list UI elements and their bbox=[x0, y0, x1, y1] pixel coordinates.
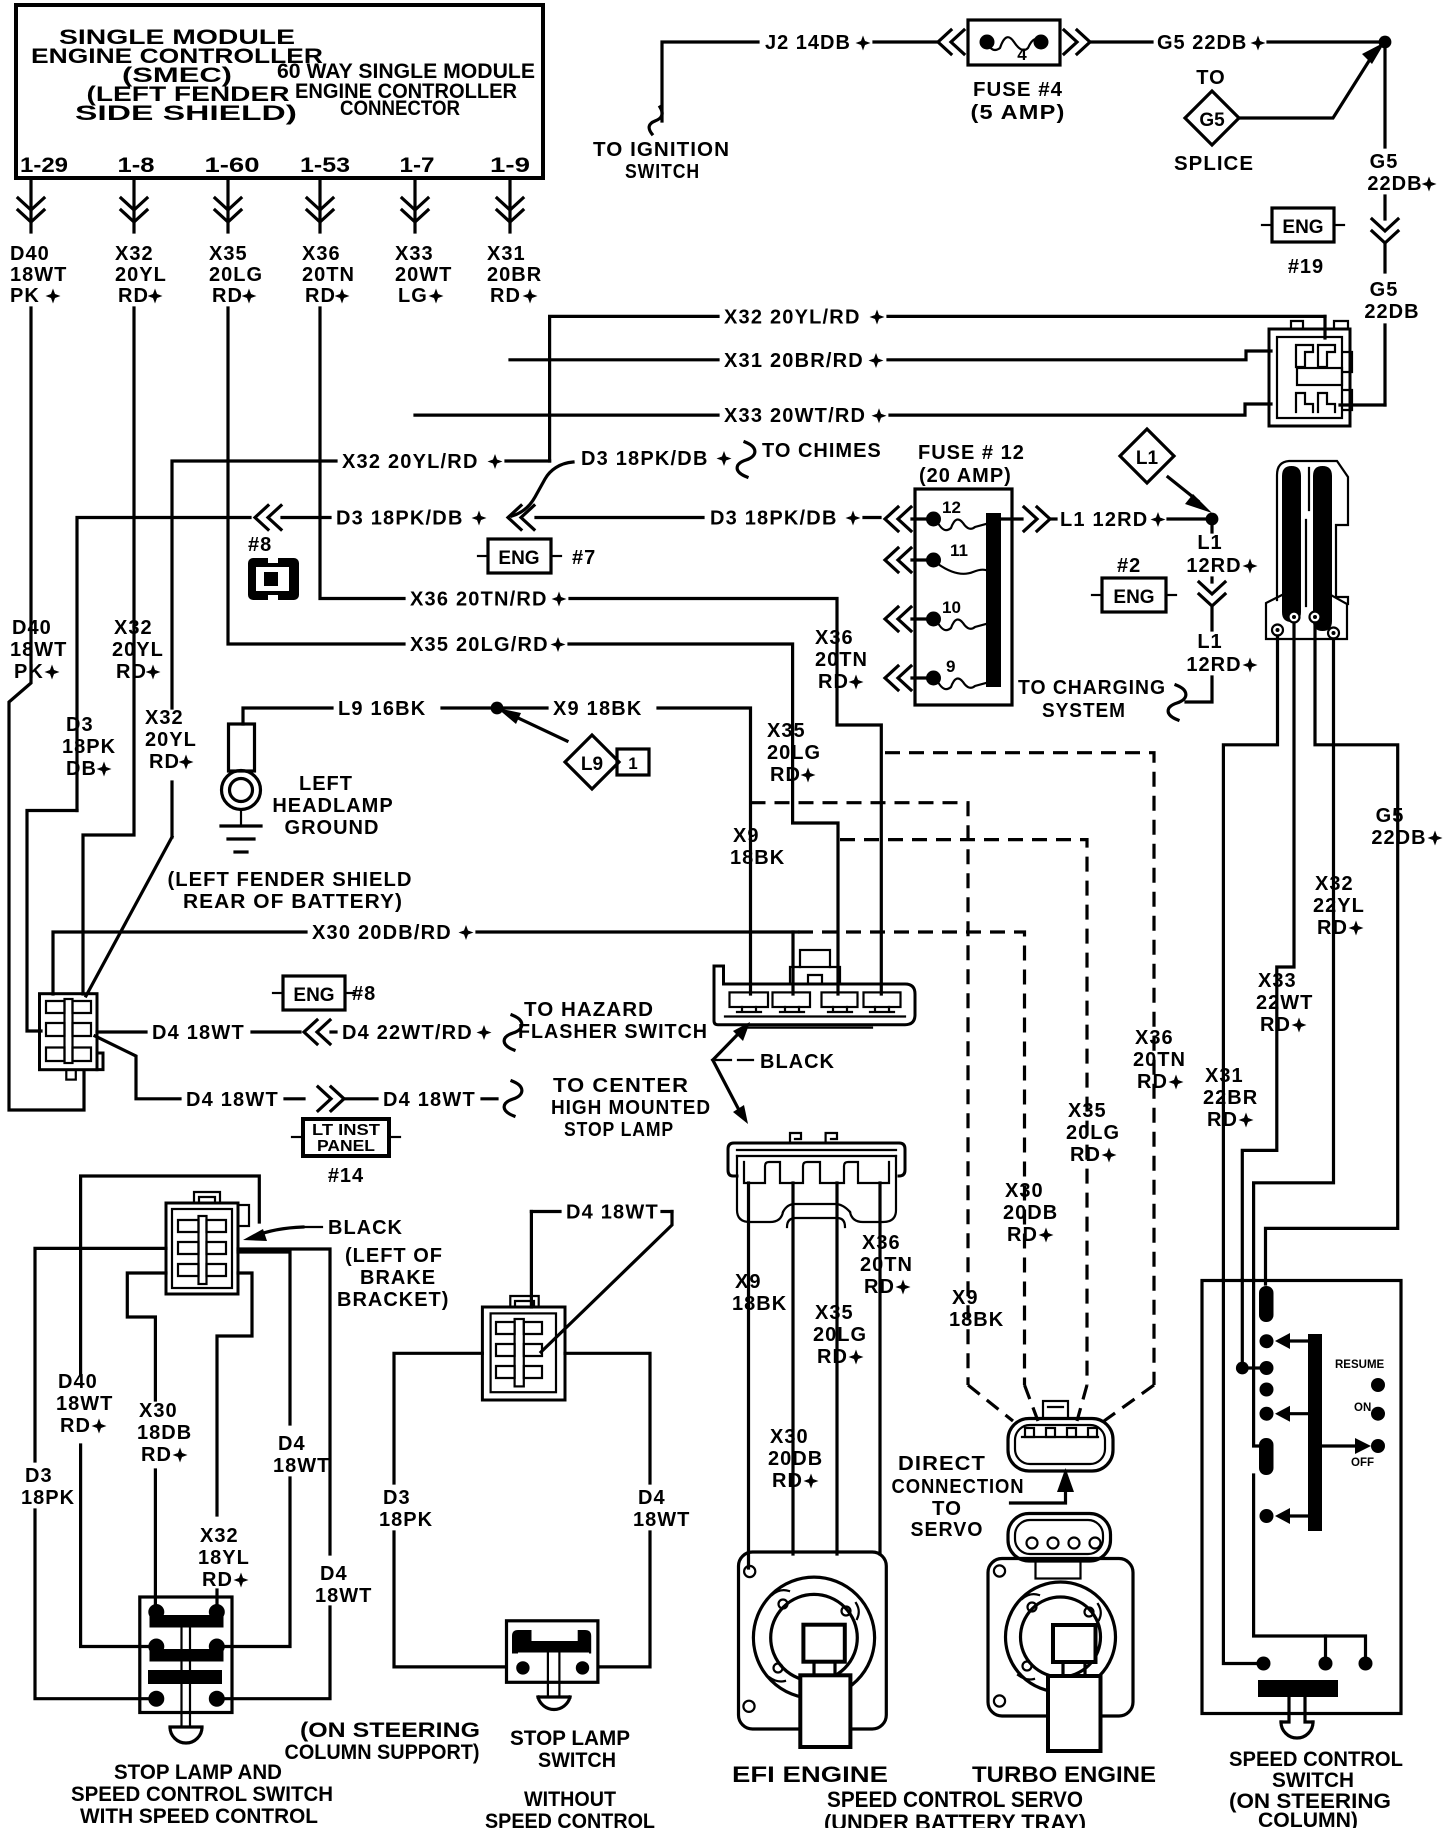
svg-text:G5: G5 bbox=[1370, 279, 1399, 301]
svg-text:PANEL: PANEL bbox=[317, 1138, 375, 1155]
svg-text:20TN: 20TN bbox=[860, 1254, 913, 1276]
svg-text:20TN: 20TN bbox=[815, 649, 868, 671]
svg-text:BLACK: BLACK bbox=[328, 1217, 403, 1239]
svg-text:D4 22WT/RD: D4 22WT/RD bbox=[342, 1022, 473, 1044]
svg-text:RD: RD bbox=[818, 671, 849, 693]
wire X36 20TN/RD bbox=[320, 308, 404, 599]
svg-text:RD: RD bbox=[118, 285, 149, 307]
svg-text:SPEED CONTROL: SPEED CONTROL bbox=[485, 1810, 655, 1828]
svg-text:20TN: 20TN bbox=[1133, 1049, 1186, 1071]
svg-text:20YL: 20YL bbox=[115, 264, 167, 286]
svg-text:22DB: 22DB bbox=[1371, 827, 1426, 849]
svg-text:20YL: 20YL bbox=[145, 729, 197, 751]
slider bar bbox=[1308, 1334, 1322, 1531]
svg-text:RD: RD bbox=[141, 1444, 172, 1466]
turbo servo actuator bbox=[1053, 1625, 1096, 1662]
svg-text:12RD: 12RD bbox=[1186, 555, 1241, 577]
svg-text:4: 4 bbox=[1017, 45, 1027, 64]
svg-text:22BR: 22BR bbox=[1203, 1087, 1258, 1109]
svg-text:X30: X30 bbox=[770, 1426, 809, 1448]
svg-text:TO CHARGING: TO CHARGING bbox=[1018, 677, 1166, 699]
svg-text:BRACKET): BRACKET) bbox=[337, 1289, 449, 1311]
wire D4 18WT (stop lamp) bbox=[95, 1036, 180, 1099]
svg-text:22DB: 22DB bbox=[1364, 301, 1419, 323]
svg-text:RD: RD bbox=[212, 285, 243, 307]
svg-text:D3: D3 bbox=[383, 1487, 411, 1509]
svg-text:X35: X35 bbox=[767, 720, 806, 742]
wire X30 20DB/RD bbox=[53, 932, 306, 994]
svg-text:X31: X31 bbox=[487, 243, 526, 265]
wire L1 12RD down bbox=[1210, 525, 1213, 532]
junction node L1 bbox=[1206, 513, 1219, 526]
wire D3 branch to chimes bbox=[512, 462, 573, 516]
connector LT INST PANEL #14 bbox=[303, 1119, 389, 1156]
arrow resume bbox=[1288, 1339, 1307, 1342]
svg-text:CONNECTION: CONNECTION bbox=[892, 1476, 1025, 1498]
svg-text:ENG: ENG bbox=[1282, 217, 1323, 238]
svg-text:1-29: 1-29 bbox=[20, 154, 68, 177]
svg-text:COLUMN SUPPORT): COLUMN SUPPORT) bbox=[285, 1741, 480, 1764]
label D40 18WT PK mid bbox=[10, 617, 67, 683]
wire D40 to switch bbox=[81, 1445, 147, 1647]
svg-text:D4 18WT: D4 18WT bbox=[566, 1202, 659, 1224]
label BLACK (brake bracket) bbox=[305, 1226, 322, 1228]
wire X31 22BR/RD bbox=[1223, 636, 1277, 1280]
svg-text:20LG: 20LG bbox=[209, 264, 263, 286]
wire X35 20LG/RD bbox=[228, 308, 404, 644]
arrow to servo connector bbox=[1011, 1490, 1066, 1503]
wire X32 label mid bbox=[145, 707, 197, 773]
svg-text:18WT: 18WT bbox=[10, 264, 67, 286]
wire X32 20YL/RD left bbox=[172, 461, 336, 708]
svg-text:SPLICE: SPLICE bbox=[1174, 153, 1254, 175]
svg-text:L9: L9 bbox=[581, 754, 603, 775]
svg-text:RD: RD bbox=[772, 1470, 803, 1492]
svg-text:SPEED CONTROL SERVO: SPEED CONTROL SERVO bbox=[827, 1787, 1083, 1812]
svg-text:TO CHIMES: TO CHIMES bbox=[762, 440, 882, 462]
svg-text:X33 20WT/RD: X33 20WT/RD bbox=[724, 405, 866, 427]
fork right blade bbox=[1313, 466, 1332, 631]
bottom contact dots bbox=[1257, 1657, 1271, 1671]
svg-text:PK: PK bbox=[14, 661, 44, 683]
label direct connection to servo bbox=[892, 1453, 1025, 1541]
svg-text:X35: X35 bbox=[1068, 1100, 1107, 1122]
wire D3 to right switch bbox=[394, 1353, 482, 1483]
captions bbox=[824, 1762, 1156, 1828]
label X9 18BK (low) bbox=[732, 1271, 787, 1315]
svg-text:18PK: 18PK bbox=[62, 736, 116, 758]
svg-text:9: 9 bbox=[946, 657, 955, 676]
svg-text:TURBO ENGINE: TURBO ENGINE bbox=[972, 1762, 1156, 1787]
terminal pill 2 bbox=[1259, 1438, 1274, 1475]
svg-text:WITHOUT: WITHOUT bbox=[524, 1788, 616, 1811]
label BLACK with arrows bbox=[716, 1059, 731, 1061]
svg-text:20LG: 20LG bbox=[767, 742, 821, 764]
svg-text:D40: D40 bbox=[58, 1371, 98, 1393]
svg-text:HIGH MOUNTED: HIGH MOUNTED bbox=[551, 1097, 711, 1119]
svg-text:(5 AMP): (5 AMP) bbox=[971, 102, 1066, 124]
svg-text:X9 18BK: X9 18BK bbox=[553, 698, 643, 720]
wire to ignition switch bbox=[662, 42, 758, 121]
wire X31 20BR/RD bbox=[510, 358, 718, 361]
wire X33 20WT/RD bbox=[415, 414, 718, 417]
connector ENG #7 bbox=[488, 539, 551, 573]
speed control switch housing bbox=[1202, 1281, 1401, 1714]
chimes break squiggle bbox=[737, 442, 755, 477]
svg-text:D4 18WT: D4 18WT bbox=[186, 1089, 279, 1111]
fuse F4 chevrons right bbox=[1064, 30, 1090, 54]
label X30 20DB RD (low) bbox=[768, 1426, 823, 1492]
svg-text:X32: X32 bbox=[1315, 873, 1354, 895]
svg-text:STOP LAMP AND: STOP LAMP AND bbox=[114, 1761, 282, 1784]
svg-text:TO: TO bbox=[1196, 67, 1225, 89]
svg-text:18YL: 18YL bbox=[198, 1547, 250, 1569]
arrow low bbox=[1288, 1514, 1307, 1517]
bottom contact bar bbox=[1258, 1680, 1338, 1697]
svg-text:#8: #8 bbox=[248, 534, 272, 556]
svg-text:CONNECTOR: CONNECTOR bbox=[340, 97, 460, 120]
svg-text:X31 20BR/RD: X31 20BR/RD bbox=[724, 350, 864, 372]
svg-text:10: 10 bbox=[942, 598, 961, 617]
svg-text:11: 11 bbox=[950, 541, 968, 560]
svg-text:RD: RD bbox=[1207, 1109, 1238, 1131]
svg-text:X33: X33 bbox=[395, 243, 434, 265]
fuse 11 row bbox=[885, 548, 911, 572]
svg-text:X32: X32 bbox=[114, 617, 153, 639]
svg-text:LG: LG bbox=[398, 285, 428, 307]
svg-text:RD: RD bbox=[1317, 917, 1348, 939]
svg-text:D4: D4 bbox=[320, 1563, 348, 1585]
svg-text:(20 AMP): (20 AMP) bbox=[919, 465, 1012, 487]
wire X32 diagonal to connector bbox=[170, 782, 173, 837]
svg-text:L1: L1 bbox=[1197, 532, 1222, 554]
svg-text:20LG: 20LG bbox=[813, 1324, 867, 1346]
svg-text:X30 20DB/RD: X30 20DB/RD bbox=[312, 922, 452, 944]
svg-text:SIDE SHIELD): SIDE SHIELD) bbox=[75, 102, 297, 125]
svg-text:1-7: 1-7 bbox=[400, 154, 435, 177]
svg-text:TO HAZARD: TO HAZARD bbox=[524, 999, 654, 1021]
fuse F4 chevrons left bbox=[938, 30, 964, 54]
svg-text:X32 20YL/RD: X32 20YL/RD bbox=[342, 451, 479, 473]
svg-text:D3: D3 bbox=[66, 714, 94, 736]
svg-text:X36: X36 bbox=[815, 627, 854, 649]
wire D4 to switch mid pin bbox=[238, 1252, 290, 1424]
junction node X9 bbox=[491, 702, 504, 715]
svg-text:SWITCH: SWITCH bbox=[625, 161, 700, 183]
right contact dots bbox=[1371, 1378, 1385, 1392]
connector ENG #8 bbox=[283, 976, 345, 1010]
svg-text:(UNDER BATTERY TRAY): (UNDER BATTERY TRAY) bbox=[824, 1810, 1086, 1828]
svg-text:18PK: 18PK bbox=[21, 1487, 75, 1509]
svg-text:18WT: 18WT bbox=[315, 1585, 372, 1607]
svg-text:1: 1 bbox=[628, 754, 637, 773]
fork terminal 4 bbox=[1328, 628, 1339, 639]
dashed wire X36 bbox=[885, 753, 1154, 1385]
svg-text:OFF: OFF bbox=[1351, 1457, 1374, 1469]
60-way engine controller connector bbox=[1269, 321, 1352, 426]
svg-text:RD: RD bbox=[1070, 1144, 1101, 1166]
svg-text:X33: X33 bbox=[1258, 970, 1297, 992]
label X35 20LG RD (low) bbox=[813, 1302, 867, 1368]
wire G5 22DB bbox=[1266, 623, 1398, 1284]
dashed wire X30 bbox=[798, 932, 1025, 1385]
SMEC box title text bbox=[31, 26, 535, 125]
svg-text:D3 18PK/DB: D3 18PK/DB bbox=[336, 508, 464, 530]
wire L9 16BK bbox=[243, 708, 332, 724]
svg-text:18BK: 18BK bbox=[949, 1309, 1004, 1331]
wire loop to connector top bbox=[81, 1176, 260, 1375]
svg-text:X36: X36 bbox=[302, 243, 341, 265]
svg-text:X32: X32 bbox=[200, 1525, 239, 1547]
servo connector mount bbox=[1036, 1561, 1081, 1579]
svg-text:DIRECT: DIRECT bbox=[898, 1453, 986, 1475]
svg-text:20BR: 20BR bbox=[487, 264, 542, 286]
svg-text:18WT: 18WT bbox=[633, 1509, 690, 1531]
svg-text:SPEED CONTROL: SPEED CONTROL bbox=[1229, 1748, 1403, 1771]
fuse F4 box bbox=[968, 20, 1060, 65]
svg-text:X32 20YL/RD: X32 20YL/RD bbox=[724, 307, 861, 329]
svg-text:TO: TO bbox=[932, 1498, 962, 1520]
svg-text:D4: D4 bbox=[278, 1433, 306, 1455]
svg-text:X9: X9 bbox=[733, 825, 759, 847]
svg-text:D4 18WT: D4 18WT bbox=[152, 1022, 245, 1044]
label D40 18WT RD bbox=[56, 1371, 113, 1437]
L9 splice diamond bbox=[516, 717, 567, 741]
fork outline bbox=[1277, 461, 1348, 604]
svg-text:WITH SPEED CONTROL: WITH SPEED CONTROL bbox=[80, 1805, 318, 1828]
svg-text:RD: RD bbox=[202, 1569, 233, 1591]
label D3 18PK DB mid bbox=[62, 714, 116, 780]
turbo servo mounting plate bbox=[988, 1559, 1133, 1717]
svg-text:18WT: 18WT bbox=[273, 1455, 330, 1477]
svg-text:X30: X30 bbox=[139, 1400, 178, 1422]
svg-text:SERVO: SERVO bbox=[911, 1519, 984, 1541]
svg-text:X30: X30 bbox=[1005, 1180, 1044, 1202]
wire G5 into connector bbox=[1340, 403, 1385, 406]
svg-text:1-8: 1-8 bbox=[118, 154, 155, 177]
arrow L1 to junction bbox=[1168, 477, 1198, 501]
dashed fan to servo connector bbox=[968, 1385, 1013, 1421]
label X36 20TN RD (mid) bbox=[815, 627, 868, 693]
wire X32 18YL to switch bbox=[217, 1273, 252, 1515]
svg-text:FUSE # 12: FUSE # 12 bbox=[918, 442, 1025, 464]
svg-text:(ON STEERING: (ON STEERING bbox=[300, 1719, 480, 1742]
dashed wire X35 bbox=[840, 840, 1087, 1385]
internal wires bbox=[1223, 1280, 1256, 1664]
svg-text:PK: PK bbox=[10, 285, 40, 307]
wire D3 to connector bbox=[27, 811, 77, 1032]
svg-text:X9: X9 bbox=[735, 1271, 761, 1293]
svg-text:L1: L1 bbox=[1136, 448, 1159, 469]
wire D40 18WT PK down bbox=[9, 308, 84, 1110]
EFI servo mounting plate bbox=[739, 1552, 887, 1729]
EFI servo diaphragm rings bbox=[753, 1577, 874, 1698]
svg-text:RESUME: RESUME bbox=[1335, 1359, 1385, 1371]
mating connector tab bbox=[1043, 1401, 1068, 1419]
svg-text:20YL: 20YL bbox=[112, 639, 164, 661]
wire D3 18PK/DB bbox=[77, 518, 250, 811]
svg-text:X36: X36 bbox=[1135, 1027, 1174, 1049]
svg-text:G5: G5 bbox=[1199, 110, 1225, 131]
pin 1-9 arrow bbox=[508, 178, 511, 232]
svg-text:22YL: 22YL bbox=[1313, 895, 1365, 917]
switch contact dots left bbox=[1260, 1334, 1274, 1348]
pin 1-8 arrow bbox=[132, 178, 135, 232]
svg-text:#2: #2 bbox=[1117, 555, 1141, 577]
fork terminal 2 bbox=[1289, 612, 1300, 623]
svg-text:L1: L1 bbox=[1197, 631, 1222, 653]
wire D4 to right switch bbox=[565, 1353, 650, 1483]
fork terminal 3 bbox=[1310, 612, 1321, 623]
svg-text:SWITCH: SWITCH bbox=[1272, 1769, 1354, 1792]
EFI servo actuator bbox=[803, 1625, 844, 1662]
wire D4 18WT (hazard) bbox=[97, 1030, 146, 1033]
svg-text:X36 20TN/RD: X36 20TN/RD bbox=[410, 589, 548, 611]
G5 wire down bbox=[1383, 48, 1386, 147]
svg-text:22DB: 22DB bbox=[1367, 173, 1422, 195]
svg-text:20DB: 20DB bbox=[1003, 1202, 1058, 1224]
wire X33 22WT/RD bbox=[1242, 623, 1294, 1280]
switch pins bbox=[148, 1604, 164, 1620]
svg-text:18DB: 18DB bbox=[137, 1422, 192, 1444]
pin 1-7 arrow bbox=[413, 178, 416, 232]
svg-text:D3: D3 bbox=[25, 1465, 53, 1487]
svg-text:LEFT: LEFT bbox=[299, 773, 353, 795]
wire X30 to switch bbox=[127, 1273, 166, 1400]
svg-text:DB: DB bbox=[66, 758, 97, 780]
pin labels bbox=[20, 154, 530, 177]
svg-text:X36: X36 bbox=[862, 1232, 901, 1254]
svg-text:D3 18PK/DB: D3 18PK/DB bbox=[710, 508, 838, 530]
label X36 20TN RD (low) bbox=[860, 1232, 913, 1298]
svg-text:GROUND: GROUND bbox=[285, 817, 380, 839]
svg-text:BRAKE: BRAKE bbox=[360, 1267, 436, 1289]
svg-text:#14: #14 bbox=[328, 1165, 364, 1187]
svg-text:(LEFT OF: (LEFT OF bbox=[345, 1245, 443, 1267]
svg-text:STOP LAMP: STOP LAMP bbox=[564, 1119, 674, 1141]
pin 1-29 arrow bbox=[29, 178, 32, 232]
svg-text:LT INST: LT INST bbox=[312, 1122, 380, 1139]
svg-text:RD: RD bbox=[305, 285, 336, 307]
fork base plate bbox=[1266, 593, 1347, 639]
svg-text:FLASHER SWITCH: FLASHER SWITCH bbox=[518, 1021, 708, 1043]
svg-text:20LG: 20LG bbox=[1066, 1122, 1120, 1144]
fork terminal 1 bbox=[1272, 625, 1283, 636]
ground terminal tube bbox=[229, 724, 255, 771]
svg-text:STOP LAMP: STOP LAMP bbox=[510, 1727, 630, 1750]
turbo servo diaphragm rings bbox=[1006, 1582, 1116, 1692]
label X32 20YL RD mid bbox=[112, 617, 164, 683]
svg-text:J2 14DB: J2 14DB bbox=[765, 32, 851, 54]
pin 1-53 arrow bbox=[318, 178, 321, 232]
svg-text:1-53: 1-53 bbox=[300, 154, 350, 177]
svg-text:18BK: 18BK bbox=[730, 847, 785, 869]
svg-text:G5: G5 bbox=[1370, 151, 1399, 173]
svg-text:RD: RD bbox=[864, 1276, 895, 1298]
splice junction dot bbox=[1379, 36, 1392, 49]
fuse F4 element bbox=[980, 35, 995, 50]
svg-text:COLUMN): COLUMN) bbox=[1258, 1809, 1358, 1828]
svg-text:G5: G5 bbox=[1376, 805, 1405, 827]
label X9 18BK (mid) bbox=[730, 825, 785, 869]
fuse 12 row bbox=[885, 507, 911, 531]
splice arrow to junction bbox=[1240, 53, 1374, 118]
svg-text:RD: RD bbox=[149, 751, 180, 773]
terminal pill 1 bbox=[1259, 1286, 1274, 1322]
ground symbol bbox=[221, 824, 261, 827]
svg-text:RD: RD bbox=[490, 285, 521, 307]
svg-text:12: 12 bbox=[942, 498, 961, 517]
svg-text:D4: D4 bbox=[638, 1487, 666, 1509]
svg-text:D40: D40 bbox=[12, 617, 52, 639]
switch contact bars bbox=[150, 1615, 224, 1628]
charging system break squiggle bbox=[1168, 685, 1186, 720]
svg-text:X35: X35 bbox=[209, 243, 248, 265]
svg-text:SYSTEM: SYSTEM bbox=[1042, 700, 1126, 722]
svg-text:BLACK: BLACK bbox=[760, 1051, 835, 1073]
svg-text:TO CENTER: TO CENTER bbox=[553, 1075, 689, 1097]
pin 1-60 arrow bbox=[226, 178, 229, 232]
svg-text:X32: X32 bbox=[145, 707, 184, 729]
svg-text:22WT: 22WT bbox=[1256, 992, 1313, 1014]
svg-text:HEADLAMP: HEADLAMP bbox=[272, 795, 393, 817]
svg-text:1-60: 1-60 bbox=[205, 154, 260, 177]
svg-text:#7: #7 bbox=[572, 547, 596, 569]
switch plunger bbox=[1281, 1697, 1289, 1722]
svg-text:20TN: 20TN bbox=[302, 264, 355, 286]
stop lamp switch body bbox=[507, 1621, 598, 1683]
fuse 10 row bbox=[885, 607, 911, 631]
svg-text:RD: RD bbox=[60, 1415, 91, 1437]
svg-text:G5 22DB: G5 22DB bbox=[1157, 32, 1247, 54]
svg-text:TO IGNITION: TO IGNITION bbox=[593, 139, 730, 161]
svg-text:X35: X35 bbox=[815, 1302, 854, 1324]
connector ENG #19 bbox=[1272, 208, 1334, 242]
svg-text:SPEED CONTROL SWITCH: SPEED CONTROL SWITCH bbox=[71, 1783, 333, 1806]
svg-text:(LEFT FENDER SHIELD: (LEFT FENDER SHIELD bbox=[168, 869, 413, 891]
svg-text:RD: RD bbox=[770, 764, 801, 786]
svg-text:RD: RD bbox=[1007, 1224, 1038, 1246]
arrow on bbox=[1288, 1412, 1307, 1415]
svg-text:ENG: ENG bbox=[293, 985, 334, 1006]
fuse block bus bar bbox=[986, 513, 1001, 687]
svg-text:X35 20LG/RD: X35 20LG/RD bbox=[410, 634, 549, 656]
svg-text:ON: ON bbox=[1354, 1402, 1371, 1414]
L1 splice diamond bbox=[1120, 429, 1174, 483]
svg-text:18WT: 18WT bbox=[10, 639, 67, 661]
svg-text:X9: X9 bbox=[952, 1287, 978, 1309]
svg-text:ENG: ENG bbox=[1113, 587, 1154, 608]
svg-text:D40: D40 bbox=[10, 243, 50, 265]
svg-text:D3 18PK/DB: D3 18PK/DB bbox=[581, 448, 709, 470]
svg-text:RD: RD bbox=[116, 661, 147, 683]
svg-text:L1 12RD: L1 12RD bbox=[1060, 509, 1148, 531]
captions bbox=[71, 1719, 480, 1828]
ignition break squiggle bbox=[649, 107, 662, 134]
svg-text:D4 18WT: D4 18WT bbox=[383, 1089, 476, 1111]
svg-text:RD: RD bbox=[1260, 1014, 1291, 1036]
svg-text:SWITCH: SWITCH bbox=[538, 1749, 616, 1772]
wire X32 22YL/RD bbox=[1254, 639, 1334, 1280]
arrow off bbox=[1323, 1444, 1357, 1447]
svg-text:ENG: ENG bbox=[498, 548, 539, 569]
switch plunger bbox=[180, 1627, 182, 1727]
svg-text:18WT: 18WT bbox=[56, 1393, 113, 1415]
fuse block box bbox=[915, 489, 1012, 705]
svg-text:20WT: 20WT bbox=[395, 264, 452, 286]
label D4 18WT bracket bbox=[531, 1210, 560, 1213]
svg-text:RD: RD bbox=[1137, 1071, 1168, 1093]
